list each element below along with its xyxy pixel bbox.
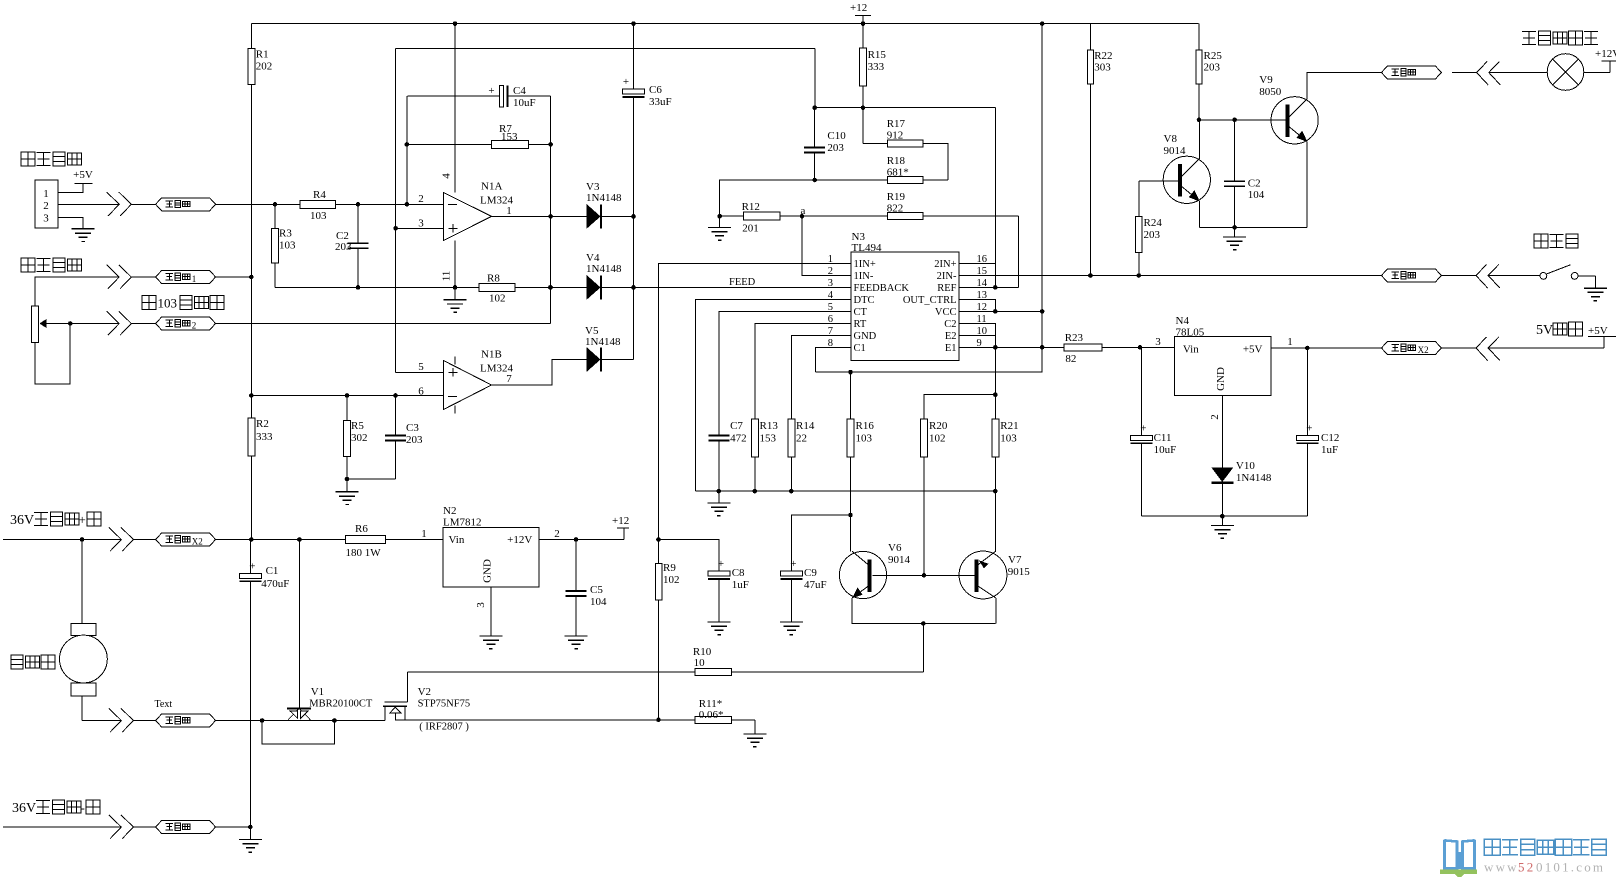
svg-text:+: + — [718, 558, 724, 570]
svg-text:1uF: 1uF — [732, 579, 749, 591]
capacitor C4 — [407, 85, 550, 109]
svg-text:47uF: 47uF — [804, 579, 827, 591]
wire hall signal 2 — [131, 203, 155, 205]
wire-label speed-limit — [156, 271, 216, 285]
svg-text:1: 1 — [192, 274, 197, 284]
svg-text:( IRF2807 ): ( IRF2807 ) — [419, 722, 469, 733]
wire-label pot wiper — [156, 317, 216, 331]
svg-text:203: 203 — [827, 142, 844, 154]
wire pin7 GND drop — [791, 335, 851, 419]
wire C6 vertical — [631, 24, 636, 360]
svg-text:2: 2 — [1209, 414, 1221, 420]
svg-text:C3: C3 — [406, 422, 419, 434]
svg-text:C1: C1 — [266, 565, 279, 577]
wire speed-limit to R1 — [216, 276, 252, 278]
resistor R14 — [788, 419, 815, 491]
svg-text:Vin: Vin — [1183, 344, 1199, 356]
resistor R13 — [752, 419, 779, 491]
mosfet V2 STP75NF75 — [383, 672, 470, 733]
resistor R5 — [344, 396, 368, 480]
svg-text:1N4148: 1N4148 — [585, 336, 621, 348]
wire N1A output — [492, 215, 551, 217]
power +12 mid — [612, 515, 629, 540]
svg-text:470uF: 470uF — [261, 578, 289, 590]
svg-text:33uF: 33uF — [649, 96, 672, 108]
svg-text:V10: V10 — [1236, 460, 1255, 472]
svg-text:E1: E1 — [945, 343, 957, 354]
wire V4 line — [550, 286, 587, 288]
resistor R12 — [742, 201, 780, 235]
wire V3 line — [550, 215, 587, 217]
svg-text:C12: C12 — [1321, 432, 1339, 444]
node a — [801, 205, 806, 217]
label brake light — [1522, 31, 1598, 45]
watermark site name — [1484, 839, 1606, 855]
wire hall pin1 to +5V — [58, 184, 83, 193]
svg-text:3: 3 — [418, 218, 424, 230]
svg-text:R23: R23 — [1065, 332, 1084, 344]
break hall signal — [107, 192, 132, 216]
svg-text:203: 203 — [335, 241, 352, 253]
IC N3 TL494 box — [851, 231, 959, 361]
wire pot wiper 2 — [131, 323, 155, 325]
wire pin3-pin5 vertical — [393, 48, 398, 372]
wire-label brake line — [1381, 269, 1441, 282]
svg-text:+12V: +12V — [507, 534, 532, 546]
ground R11 — [743, 720, 766, 747]
svg-text:203: 203 — [1144, 229, 1161, 241]
diode V5 — [585, 325, 621, 372]
svg-text:C5: C5 — [590, 584, 603, 596]
wire battery minus 2 — [133, 826, 155, 828]
wire R8 rail — [275, 285, 553, 290]
wire node-a to pin2 — [802, 216, 851, 275]
power +12V lamp — [1595, 48, 1616, 61]
svg-text:R15: R15 — [868, 49, 887, 61]
svg-text:R6: R6 — [355, 523, 368, 535]
svg-text:472: 472 — [730, 433, 747, 445]
svg-text:9014: 9014 — [1164, 145, 1187, 157]
svg-text:V2: V2 — [418, 686, 431, 698]
svg-text:+5V: +5V — [73, 169, 93, 181]
resistor R25 — [1196, 24, 1222, 120]
svg-text:4: 4 — [441, 173, 453, 179]
wire-label 5V line — [1381, 342, 1441, 356]
diode V4 — [586, 252, 622, 299]
wire pin4 DTC drop — [696, 299, 851, 491]
svg-text:6: 6 — [418, 386, 424, 398]
wire pot wiper to R8 node — [216, 323, 551, 325]
capacitor C12 — [1296, 348, 1339, 516]
wire N1B pin5 — [396, 371, 444, 373]
svg-text:N4: N4 — [1176, 315, 1190, 327]
svg-text:X2: X2 — [1418, 345, 1429, 355]
ground bank — [707, 491, 730, 515]
transistor V9 — [1259, 74, 1318, 144]
wire N1A pin2 feedback — [405, 96, 410, 205]
svg-text:V7: V7 — [1008, 554, 1022, 566]
svg-text:1: 1 — [1287, 336, 1293, 348]
resistor R17 — [863, 108, 948, 180]
svg-text:FEED: FEED — [729, 277, 756, 288]
ground R5 C3 — [336, 477, 359, 505]
svg-text:2IN-: 2IN- — [937, 271, 957, 282]
svg-text:C9: C9 — [804, 567, 817, 579]
svg-text:9015: 9015 — [1008, 566, 1030, 578]
resistor R1 — [248, 48, 272, 84]
svg-text:GND: GND — [482, 559, 494, 583]
svg-text:R18: R18 — [887, 155, 906, 167]
wire R12-R19 rail — [717, 214, 1018, 219]
wire pot bottom loop — [35, 321, 72, 384]
capacitor C8 — [708, 558, 749, 622]
svg-text:VCC: VCC — [935, 307, 957, 318]
svg-text:R4: R4 — [313, 189, 326, 201]
diode V1 MBR20100CT — [287, 540, 373, 720]
svg-text:OUT_CTRL: OUT_CTRL — [903, 295, 957, 306]
wire V8 base — [1139, 180, 1178, 182]
wire bank ground line — [696, 489, 998, 494]
svg-text:1N4148: 1N4148 — [586, 263, 622, 275]
wire R19 to pin14 — [1018, 216, 1020, 287]
svg-text:R25: R25 — [1204, 50, 1223, 62]
wire feedback top — [396, 47, 815, 49]
svg-text:22: 22 — [796, 433, 807, 445]
resistor R23 — [1064, 332, 1102, 365]
wire R10 line — [407, 671, 923, 673]
op-amp N1A — [418, 173, 513, 282]
svg-text:103: 103 — [310, 210, 327, 222]
transistor V6 — [839, 542, 910, 599]
watermark book icon — [1440, 840, 1477, 877]
svg-text:302: 302 — [351, 432, 368, 444]
svg-text:1: 1 — [421, 528, 427, 540]
svg-text:681*: 681* — [887, 167, 909, 179]
svg-text:2: 2 — [43, 200, 49, 212]
resistor R10 — [693, 646, 732, 676]
break battery plus — [109, 527, 134, 551]
svg-text:102: 102 — [489, 293, 506, 305]
svg-text:R19: R19 — [887, 191, 906, 203]
ground C5 — [565, 636, 588, 649]
wire C10 node rail — [812, 48, 995, 110]
wire V8 collector — [1197, 118, 1202, 159]
svg-text:153: 153 — [501, 131, 518, 143]
ground N2 — [479, 636, 502, 649]
capacitor C5 — [566, 540, 608, 637]
wire 5V to plus5 — [1488, 336, 1604, 348]
capacitor C9 — [780, 558, 826, 622]
svg-text:C2: C2 — [944, 319, 956, 330]
svg-text:822: 822 — [887, 203, 904, 215]
wire motor line 2 — [133, 720, 155, 722]
wire R23 to N4 — [1102, 336, 1175, 350]
svg-text:+: + — [488, 85, 494, 97]
break pot wiper — [107, 311, 132, 335]
wire-label brake light — [1381, 66, 1441, 79]
wire N2 out — [539, 537, 624, 542]
wire R18 left drop — [720, 180, 815, 216]
label Text artifact — [155, 699, 173, 710]
resistor R24 — [1136, 181, 1163, 276]
wire R9 top — [659, 540, 720, 572]
wire N4 out — [1271, 336, 1476, 350]
svg-text:+12: +12 — [850, 2, 867, 14]
svg-text:8050: 8050 — [1259, 86, 1282, 98]
svg-text:REF: REF — [937, 283, 956, 294]
wire-label motor line — [156, 714, 216, 727]
wire pin8 C1 drop — [816, 347, 851, 372]
wire V6 base rail — [872, 573, 975, 578]
resistor R7 — [407, 123, 551, 148]
svg-text:R14: R14 — [796, 420, 815, 432]
svg-text:V9: V9 — [1259, 74, 1273, 86]
wire lamp line — [1452, 72, 1477, 74]
svg-text:GND: GND — [854, 331, 877, 342]
svg-text:203: 203 — [406, 434, 423, 446]
IC N2 LM7812 — [421, 505, 560, 608]
svg-text:R21: R21 — [1000, 420, 1018, 432]
svg-text:N1B: N1B — [481, 349, 502, 361]
wire V9 collector to lamp line — [1307, 73, 1381, 100]
label hall handle — [21, 152, 82, 166]
label speed-limit resistor — [21, 258, 82, 272]
svg-text:N2: N2 — [443, 505, 456, 517]
svg-text:10: 10 — [694, 657, 706, 669]
svg-text:CT: CT — [854, 307, 868, 318]
wire pin9 E1 line — [959, 345, 1064, 350]
resistor R2 — [248, 418, 273, 540]
wire pin3 FEED stub — [634, 286, 852, 288]
svg-text:R24: R24 — [1144, 217, 1163, 229]
ground battery minus — [239, 827, 262, 852]
wire motor line to V2 — [216, 718, 386, 723]
wire battery plus to N2 — [216, 537, 443, 542]
capacitor C7 — [709, 420, 747, 491]
svg-text:5: 5 — [418, 361, 424, 373]
break battery minus — [109, 815, 134, 839]
label pot hint 103 — [142, 296, 224, 311]
svg-text:X2: X2 — [192, 537, 203, 547]
motor M — [60, 540, 108, 721]
svg-text:+: + — [1306, 422, 1312, 434]
wire hall pin3 to ground — [58, 218, 83, 229]
capacitor C6 — [623, 76, 672, 108]
svg-text:+5V: +5V — [1588, 325, 1608, 337]
svg-text:GND: GND — [1215, 367, 1227, 391]
capacitor C2 — [335, 204, 369, 287]
svg-text:0101.com: 0101.com — [1536, 860, 1605, 875]
wire lamp line 2 — [1489, 72, 1500, 74]
svg-text:201: 201 — [742, 223, 759, 235]
wire-label battery plus — [156, 533, 216, 547]
svg-text:3: 3 — [43, 213, 49, 225]
capacitor C2b — [1224, 120, 1265, 228]
svg-text:Text: Text — [155, 699, 173, 710]
svg-text:R17: R17 — [887, 118, 906, 130]
wire N1B pin6 rail — [251, 393, 443, 398]
wire pin16 to top node — [959, 108, 998, 290]
capacitor C1 — [239, 540, 289, 828]
label e-brake — [1534, 234, 1578, 248]
break speed-limit — [107, 265, 132, 289]
svg-text:C1: C1 — [854, 343, 866, 354]
svg-text:1N4148: 1N4148 — [1236, 472, 1272, 484]
svg-text:TL494: TL494 — [852, 242, 882, 254]
wire pin10 E2 stub — [959, 334, 995, 336]
wire N2 pin3 gnd — [490, 587, 492, 636]
wire V7 collector — [995, 598, 997, 624]
wire R20 branch — [924, 395, 995, 419]
svg-text:103: 103 — [856, 433, 873, 445]
wire V8 emitter — [1198, 201, 1200, 227]
svg-text:+: + — [790, 558, 796, 570]
svg-text:+: + — [249, 560, 255, 572]
svg-text:1: 1 — [43, 188, 49, 200]
svg-text:103: 103 — [279, 240, 296, 252]
svg-text:10uF: 10uF — [513, 97, 536, 109]
resistor R15 — [860, 24, 887, 108]
svg-text:R2: R2 — [256, 418, 269, 430]
wire V4 cathode FEED — [602, 277, 851, 288]
connector hall — [35, 180, 58, 228]
wire battery minus to gnd — [216, 825, 253, 830]
wire speed-limit line — [35, 277, 119, 306]
svg-text:180 1W: 180 1W — [346, 547, 382, 559]
wire N1A pin4 — [454, 24, 456, 193]
wire V3 cathode — [602, 215, 634, 217]
wire V6 emitter — [851, 598, 853, 624]
pot wiper arrow — [39, 319, 119, 328]
break 5V line — [1476, 337, 1500, 361]
svg-text:E2: E2 — [945, 331, 957, 342]
resistor R21 — [992, 419, 1019, 551]
wire emitter rail — [852, 621, 996, 626]
svg-text:1uF: 1uF — [1321, 444, 1338, 456]
svg-text:153: 153 — [760, 433, 777, 445]
ground V10 — [1211, 516, 1234, 538]
capacitor C11 — [1130, 347, 1176, 516]
wire R1-R2 chain — [249, 24, 254, 542]
svg-text:-: - — [81, 800, 85, 815]
svg-text:102: 102 — [929, 433, 946, 445]
svg-text:82: 82 — [1065, 353, 1076, 365]
svg-text:0.06*: 0.06* — [699, 709, 724, 721]
resistor R11 — [695, 698, 732, 723]
svg-text:103: 103 — [1000, 433, 1017, 445]
svg-text:1IN-: 1IN- — [854, 271, 874, 282]
break brake line — [1476, 265, 1500, 289]
svg-text:2: 2 — [554, 528, 560, 540]
svg-text:52: 52 — [1518, 860, 1535, 875]
svg-text:STP75NF75: STP75NF75 — [418, 699, 471, 710]
svg-text:2: 2 — [192, 321, 197, 331]
wire pin1 to R9 — [656, 264, 851, 542]
ground N1A — [444, 300, 467, 313]
svg-text:C10: C10 — [827, 130, 846, 142]
svg-text:V8: V8 — [1164, 133, 1178, 145]
wire battery plus line — [3, 537, 121, 542]
wire N1B out — [492, 360, 587, 386]
wire N1A pin11 ground — [454, 241, 456, 300]
wire source to R11 — [395, 718, 660, 723]
svg-text:333: 333 — [868, 61, 885, 73]
wire motor line — [82, 720, 121, 722]
svg-text:LM7812: LM7812 — [443, 517, 482, 529]
svg-text:10uF: 10uF — [1154, 444, 1177, 456]
svg-text:C7: C7 — [730, 420, 743, 432]
wire N1A output vertical — [548, 96, 553, 324]
IC N3 pin labels — [828, 254, 988, 354]
svg-text:1: 1 — [506, 205, 512, 217]
power +12 top — [850, 2, 871, 24]
wire N1A pin3 — [396, 227, 444, 229]
svg-text:+: + — [1140, 422, 1146, 434]
svg-text:R12: R12 — [742, 201, 760, 213]
wire speed-limit 2 — [131, 276, 155, 278]
svg-text:78L05: 78L05 — [1176, 326, 1205, 338]
wire battery minus line — [3, 826, 121, 828]
wire pin15 brake line — [959, 273, 1476, 278]
svg-text:+12: +12 — [612, 515, 629, 527]
resistor R3 — [272, 204, 297, 287]
capacitor C3 — [347, 396, 423, 480]
svg-text:203: 203 — [1204, 62, 1221, 74]
watermark url — [1484, 860, 1605, 875]
power +5V hall — [73, 169, 93, 184]
wire N4 gnd stem — [1221, 395, 1223, 467]
svg-text:FEEDBACK: FEEDBACK — [854, 283, 910, 294]
svg-text:R9: R9 — [663, 562, 676, 574]
wire C9 top — [791, 515, 850, 571]
svg-text:202: 202 — [256, 61, 272, 73]
label 5V output — [1536, 322, 1583, 338]
ground C8 — [708, 622, 731, 635]
svg-text:+: + — [623, 76, 629, 88]
svg-text:N1A: N1A — [481, 181, 502, 193]
svg-text:V1: V1 — [311, 686, 324, 698]
resistor R9 — [655, 540, 679, 721]
svg-text:a: a — [801, 205, 806, 217]
svg-text:Vin: Vin — [449, 534, 465, 546]
svg-text:R5: R5 — [351, 420, 364, 432]
wire pin5 CT drop — [719, 311, 851, 435]
svg-text:+: + — [79, 512, 86, 527]
svg-text:5V: 5V — [1536, 323, 1553, 338]
resistor R18 — [812, 155, 947, 184]
wire battery plus 2 — [133, 539, 155, 541]
wire-label battery minus — [156, 821, 216, 834]
ground V8 V9 — [1223, 227, 1246, 249]
power +5V out — [1588, 325, 1616, 337]
svg-text:9014: 9014 — [888, 554, 911, 566]
svg-text:303: 303 — [1094, 62, 1111, 74]
diode V10 — [1211, 460, 1272, 516]
ground R12 — [708, 216, 731, 240]
svg-text:2: 2 — [418, 193, 424, 205]
wire V9 emitter — [1306, 142, 1308, 228]
op-amp N1B — [418, 349, 513, 414]
resistor R20 — [921, 419, 948, 575]
wire pin14 REF — [959, 286, 1019, 288]
resistor R16 — [847, 372, 874, 551]
svg-text:2IN+: 2IN+ — [934, 259, 956, 270]
wire emitter gnd rail — [1199, 225, 1307, 230]
wire +12 top rail — [251, 21, 1198, 26]
resistor R8 — [479, 273, 515, 305]
ground hall — [72, 229, 95, 242]
break lamp line — [1477, 62, 1501, 86]
